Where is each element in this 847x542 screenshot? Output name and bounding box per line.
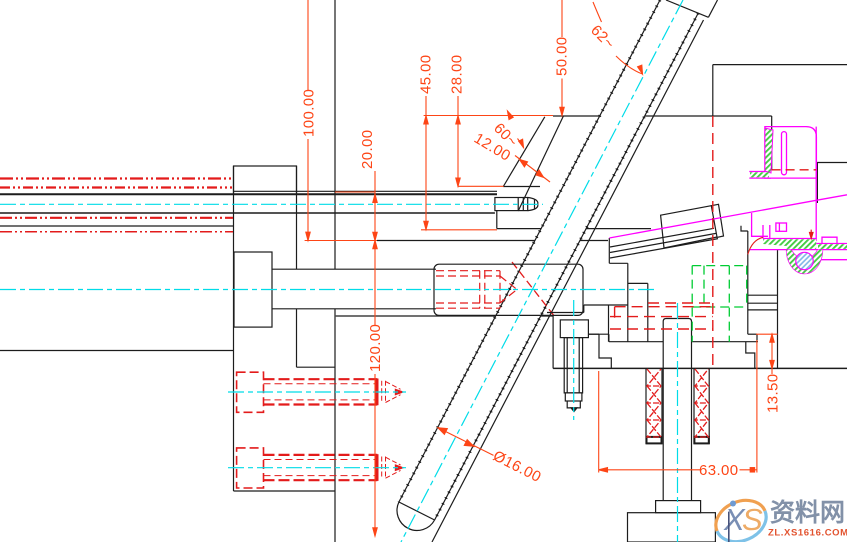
nozzle pin ring 2 — [522, 198, 524, 211]
rod edge serration left — [399, 0, 660, 502]
o-ring bar section (blue hatch) — [796, 252, 813, 269]
shaft top edge thin y=191.3 — [234, 190, 498, 192]
hidden line y=306.7 — [615, 306, 713, 308]
hidden line in slide (red dashed) — [772, 169, 817, 171]
pillar foot — [656, 501, 701, 513]
wire vertical edge x=296.5 lower — [296, 309, 298, 367]
watermark i stem — [728, 512, 730, 542]
pillar base block — [628, 513, 716, 542]
dim 13.50 line — [771, 334, 773, 374]
svg-text:资料网: 资料网 — [770, 499, 845, 527]
support bolt body — [564, 338, 582, 393]
spring 2 outer wall — [708, 368, 710, 444]
dimensions (red-orange) — [305, 0, 778, 536]
spring 1 inner wall — [661, 368, 663, 444]
dim 100.00 extension — [305, 240, 377, 242]
latch bar top edge — [610, 228, 714, 247]
slide right edge — [815, 127, 817, 241]
svg-text:50.00: 50.00 — [554, 36, 571, 76]
hidden ejector lines (red dashed) — [610, 116, 713, 368]
plate right profile — [746, 342, 755, 369]
support bolt point — [571, 408, 577, 412]
green hatch wear plate — [763, 239, 816, 249]
spring 1 outer wall — [645, 368, 647, 444]
green hatch flange — [750, 172, 769, 177]
latch bar left end — [608, 238, 610, 263]
plate left notch — [588, 333, 599, 335]
dim texts — [301, 22, 782, 486]
dim 100.00 line — [307, 0, 309, 241]
wedge edge A — [503, 117, 545, 187]
fillet leader arc (red) — [748, 237, 763, 254]
wire plate top y=116 — [553, 115, 772, 117]
hidden rod end top inner — [436, 275, 500, 277]
dim 63.00 square end — [750, 468, 754, 472]
shelf y=312.5 — [547, 312, 584, 314]
step y=283.4 — [628, 282, 648, 284]
svg-text:S: S — [742, 502, 763, 537]
wire vertical x=627.8 — [627, 263, 629, 341]
rod right edge — [435, 13, 699, 520]
wire step x=583.8 — [583, 305, 585, 313]
support bolt body line 2 — [578, 338, 580, 393]
rod outer sleeve line — [432, 20, 704, 542]
plate left profile — [599, 334, 611, 368]
wire ledge y=228.6 — [497, 228, 651, 230]
dim 13.50 arrow bottom — [770, 360, 774, 368]
spring 2 coils (red) — [695, 369, 708, 437]
centerline support bolt — [573, 300, 575, 420]
wear plate top — [763, 238, 816, 240]
base parting line y=368.4 — [553, 367, 847, 369]
lower shaft bottom edge — [272, 308, 436, 310]
green hidden pocket lines — [692, 266, 747, 342]
wire top rail y=64.6 — [713, 64, 847, 66]
hidden cone base — [499, 271, 501, 309]
arrow 120.00 down — [373, 528, 377, 536]
wire vertical x=647.8 — [647, 283, 649, 341]
support bolt tip — [567, 401, 580, 408]
dim 60 arc — [508, 111, 524, 148]
wire step x=574 — [573, 229, 575, 241]
wear plate right top — [816, 243, 847, 245]
svg-text:ZL.XS1616.COM: ZL.XS1616.COM — [768, 528, 847, 539]
right wall inner edge x=777.5 — [777, 249, 779, 368]
wire vertical plate edge x=233 — [233, 166, 235, 491]
arrow 20.00 down — [373, 232, 377, 240]
bowl outer — [791, 250, 818, 259]
support bolt head — [560, 320, 588, 338]
slide small block — [776, 223, 787, 231]
wire vertical x=771.7 — [771, 116, 773, 170]
green hatch left margin of slide — [765, 128, 773, 173]
rod left edge — [399, 0, 660, 502]
wire lower edge y=226 left — [0, 225, 234, 227]
pocket right — [746, 266, 748, 307]
base inner line — [728, 513, 730, 542]
hidden rod end bottom inner — [436, 302, 500, 304]
dim o16 line across rod — [438, 428, 494, 456]
wire plate line y=316 — [336, 315, 553, 317]
dim o16 arrow right — [464, 440, 473, 447]
dim 20.00/120.00 line — [374, 171, 376, 536]
block top-left cavity insert — [234, 166, 297, 194]
arrow 20.00 up — [373, 194, 377, 202]
arrow 28.00 up — [456, 116, 460, 124]
slide small block inner — [778, 223, 780, 231]
hidden line bundle top 1 — [0, 177, 232, 179]
dim 63.00 line — [599, 469, 757, 471]
dim 28.00 extension — [458, 185, 504, 187]
pocket bottom — [692, 306, 747, 308]
svg-text:20.00: 20.00 — [359, 129, 376, 169]
dim 28.00 line — [457, 96, 459, 186]
watermark i dot — [730, 501, 736, 507]
centerline lower shaft — [0, 289, 658, 291]
dim top chain line y=115.5 — [424, 115, 553, 117]
rod edge serration right — [435, 13, 699, 520]
right wall top tab — [741, 226, 748, 231]
svg-text:120.00: 120.00 — [367, 324, 384, 372]
cam pull diagonal — [609, 200, 816, 238]
wire left plate bottom y=350 — [0, 350, 234, 352]
slide flange bottom — [749, 177, 771, 179]
screw 1 (hidden, red) — [237, 372, 404, 412]
hidden line y=303 — [648, 302, 713, 304]
wire step x=608.9 — [608, 334, 610, 342]
centerline pillar — [677, 303, 679, 542]
dim 13.50 arrow top — [770, 334, 774, 342]
wire vertical x=712.8 — [712, 65, 714, 116]
hidden vertical x=614.6 — [614, 307, 616, 318]
dim 63.00 arrow left — [599, 468, 608, 472]
slide slot — [782, 132, 787, 175]
svg-text:100.00: 100.00 — [301, 89, 318, 137]
rod head cap right edge — [708, 0, 717, 17]
hidden collar line 1 — [479, 271, 481, 309]
right wall band 3 — [748, 309, 778, 311]
centerline upper shaft — [0, 203, 543, 205]
wire corner x=817 — [817, 163, 847, 204]
wire block top y=240.5 — [377, 240, 608, 242]
centerline guide rod — [401, 0, 683, 542]
hidden line bundle bottom 1 — [0, 217, 233, 219]
slide rail vertical 1 — [762, 225, 764, 239]
nozzle pin tip mark — [534, 200, 536, 209]
right wall step x=757 — [756, 334, 758, 342]
right wall band 1 — [748, 294, 778, 296]
svg-text:63.00: 63.00 — [699, 462, 739, 479]
dim 63.00 ext left — [598, 371, 600, 473]
dim 45.00 line — [425, 96, 427, 230]
wire vertical plate edge x=335 upper — [334, 0, 336, 269]
dim 12.00 line — [515, 156, 550, 183]
slide insert (magenta) upper body — [609, 127, 847, 274]
hidden collar line 2 — [484, 271, 486, 309]
dim o16 arrow left — [438, 428, 447, 435]
dim 45.00 extension — [421, 229, 497, 231]
wire vertical plate edge x=335 lower — [334, 309, 336, 542]
nozzle pin body — [495, 198, 528, 211]
green hatch bowl walls — [787, 250, 823, 274]
step y=305 — [584, 304, 628, 306]
centerline screw 1 — [228, 391, 406, 393]
step below latch y=263.3 — [609, 262, 628, 264]
dim 62 arrowhead — [638, 65, 643, 74]
arrow 120.00 up — [373, 241, 377, 249]
pocket top — [692, 265, 747, 267]
dim 62 arc — [593, 2, 643, 74]
spring 2 seat — [694, 437, 708, 444]
wire vertical edge x=296.5 upper — [296, 166, 298, 269]
slide flange top — [749, 171, 765, 173]
svg-text:28.00: 28.00 — [449, 54, 466, 94]
svg-text:45.00: 45.00 — [418, 54, 435, 94]
dim 12.00 arrow 1 — [520, 160, 528, 167]
wire vertical x=608.5 — [608, 305, 610, 342]
hidden line bundle bottom 2 — [0, 231, 233, 233]
watermark logo ring — [709, 493, 772, 542]
green hatch wear plate right — [818, 244, 847, 249]
arrow 50.00 down — [560, 107, 564, 115]
right wall step y=334.2 — [748, 333, 757, 335]
wedge edge B — [518, 116, 563, 211]
pocket left long — [691, 266, 693, 342]
screw 2 (hidden, red) — [237, 448, 404, 488]
shaft bottom edge y=213 — [0, 212, 495, 214]
right wall band 2 — [748, 302, 778, 304]
dim 60 arrowhead bottom — [519, 139, 524, 147]
hidden cone tip — [500, 276, 517, 303]
right wall left edge — [747, 231, 749, 334]
hidden line y=329 — [610, 328, 713, 330]
cam diagonal right extension — [816, 195, 847, 201]
bowl outer wall — [787, 250, 823, 274]
arrow 100.00 — [306, 232, 310, 240]
hidden rod end bottom line — [436, 307, 500, 309]
latch bar bottom edge — [610, 239, 718, 258]
wear plate bottom — [750, 249, 847, 251]
hidden line y=316.6 — [610, 316, 713, 318]
angled guide rod body (white fill) — [397, 0, 717, 530]
arrow 45.00 down — [424, 221, 428, 229]
ejector pillar — [663, 319, 691, 501]
support bolt collar — [565, 393, 582, 401]
wire bottom ledge y=491 — [234, 490, 336, 492]
rod dome cap — [397, 502, 435, 530]
nozzle pin bullet tip — [528, 198, 538, 211]
pocket inner 2 long — [728, 266, 730, 342]
dim 50.00 line — [561, 0, 563, 116]
centerline screw 2 — [228, 467, 406, 469]
shaft top edge y=194.3 — [0, 193, 497, 195]
rod end chord — [399, 502, 435, 520]
slide step vertical — [752, 213, 768, 236]
lower shaft top edge — [272, 268, 436, 270]
dim 63.00 ext right — [756, 340, 758, 473]
ejector plate top left y=341.7 — [609, 341, 663, 343]
support bolt body line 1 — [566, 338, 568, 393]
hidden rod end top line — [436, 270, 500, 272]
dim 12.00 arrow 2 — [536, 170, 544, 177]
latch block body — [661, 206, 717, 248]
pocket inner 1 — [703, 266, 705, 307]
spring 1 seat — [647, 437, 662, 444]
wire step below pin x=496.8 — [496, 211, 498, 229]
hidden line bundle top 2 — [0, 186, 232, 188]
ejector plate top right y=341.7 — [692, 341, 759, 343]
wire step y=367.2 — [297, 366, 336, 368]
wedge pocket bottom y=186.5 — [503, 186, 540, 188]
wire vertical x=553.1 — [552, 316, 554, 368]
dim 13.50 ext top — [756, 333, 778, 335]
arrow 28.00 down — [456, 178, 460, 186]
hidden angled hole edge (red dashed diagonal) — [512, 262, 555, 317]
svg-text:13.50: 13.50 — [765, 373, 782, 413]
bowl lip line — [820, 259, 847, 261]
wire head step y=334.2 — [588, 333, 609, 335]
wear tab — [822, 237, 837, 243]
slide rail vertical 2 — [769, 225, 771, 239]
spring 1 coils (red) — [647, 369, 661, 437]
nozzle pin ring 1 — [517, 198, 519, 211]
dim 20.00 extension — [335, 191, 375, 193]
spring 2 inner wall — [693, 368, 695, 444]
ejector block left — [234, 252, 272, 327]
hidden vertical x=712.8 — [712, 116, 714, 368]
latch bar mid line — [610, 233, 716, 252]
coupling housing block — [434, 264, 583, 315]
small red arrow at wear plate — [810, 230, 814, 239]
dim 60 arrowhead top — [508, 111, 514, 120]
latch block hook — [711, 204, 723, 237]
arrow 45.00 up — [424, 116, 428, 124]
rod head cap bottom edge — [666, 0, 708, 17]
